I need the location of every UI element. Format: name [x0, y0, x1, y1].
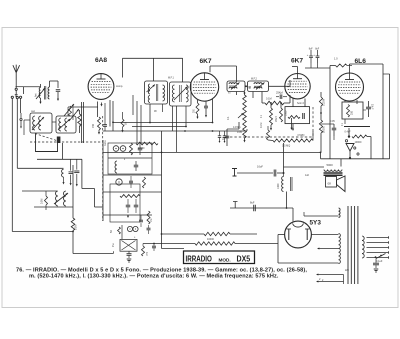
svg-text:Ant: Ant: [35, 93, 38, 97]
svg-text:Fono: Fono: [104, 140, 107, 146]
svg-text:8uF: 8uF: [250, 201, 255, 205]
svg-text:250: 250: [351, 110, 354, 115]
svg-text:6K7: 6K7: [291, 58, 303, 65]
svg-text:IRRADIO: IRRADIO: [186, 255, 213, 264]
svg-text:25Kpf: 25Kpf: [276, 91, 283, 95]
svg-text:5Y3: 5Y3: [310, 220, 322, 227]
svg-text:8uF: 8uF: [309, 49, 314, 51]
svg-text:50000: 50000: [323, 125, 326, 133]
svg-text:700: 700: [92, 123, 95, 128]
svg-text:comp.: comp.: [116, 85, 123, 88]
svg-text:1uF: 1uF: [305, 174, 310, 177]
svg-text:MOD.: MOD.: [219, 257, 231, 262]
svg-text:4uF: 4uF: [145, 252, 148, 257]
svg-text:0.05: 0.05: [330, 120, 335, 123]
svg-text:10000: 10000: [355, 141, 363, 144]
svg-text:0.5M: 0.5M: [41, 199, 44, 204]
svg-text:08: 08: [328, 182, 332, 186]
svg-text:0.1: 0.1: [227, 116, 230, 120]
svg-text:10000: 10000: [207, 238, 215, 241]
svg-text:8uF: 8uF: [315, 49, 320, 51]
svg-text:0.1uF: 0.1uF: [376, 260, 383, 263]
svg-text:1000: 1000: [285, 110, 288, 116]
svg-text:Som.0: Som.0: [297, 102, 305, 105]
svg-text:4.15kn: 4.15kn: [233, 126, 241, 129]
svg-text:1M: 1M: [150, 219, 153, 222]
svg-text:0.25M: 0.25M: [323, 99, 326, 106]
svg-text:0.5M: 0.5M: [75, 225, 78, 230]
svg-text:M.F.2: M.F.2: [251, 78, 258, 81]
svg-text:0.1M: 0.1M: [260, 123, 263, 128]
svg-text:16uF: 16uF: [257, 165, 263, 169]
svg-text:Pu: Pu: [111, 243, 115, 247]
svg-text:6A8: 6A8: [95, 57, 107, 64]
svg-text:5000: 5000: [327, 163, 334, 167]
svg-text:10uF: 10uF: [371, 104, 374, 110]
svg-text:6K7: 6K7: [200, 58, 212, 65]
svg-text:osc: osc: [31, 110, 36, 113]
svg-text:M.F.1: M.F.1: [168, 77, 175, 80]
svg-text:0.5MQ: 0.5MQ: [298, 135, 305, 137]
svg-text:DX5: DX5: [237, 254, 251, 264]
svg-text:0.05: 0.05: [237, 131, 242, 134]
svg-text:1300: 1300: [277, 183, 280, 189]
svg-text:0.1M: 0.1M: [266, 98, 272, 101]
svg-text:0.4uF: 0.4uF: [345, 131, 352, 134]
svg-text:0.5M: 0.5M: [274, 116, 277, 122]
svg-text:m. (520-1470 kHz.), l. (130-33: m. (520-1470 kHz.), l. (130-330 kHz.). —…: [29, 273, 279, 279]
svg-text:1.0: 1.0: [334, 57, 338, 61]
